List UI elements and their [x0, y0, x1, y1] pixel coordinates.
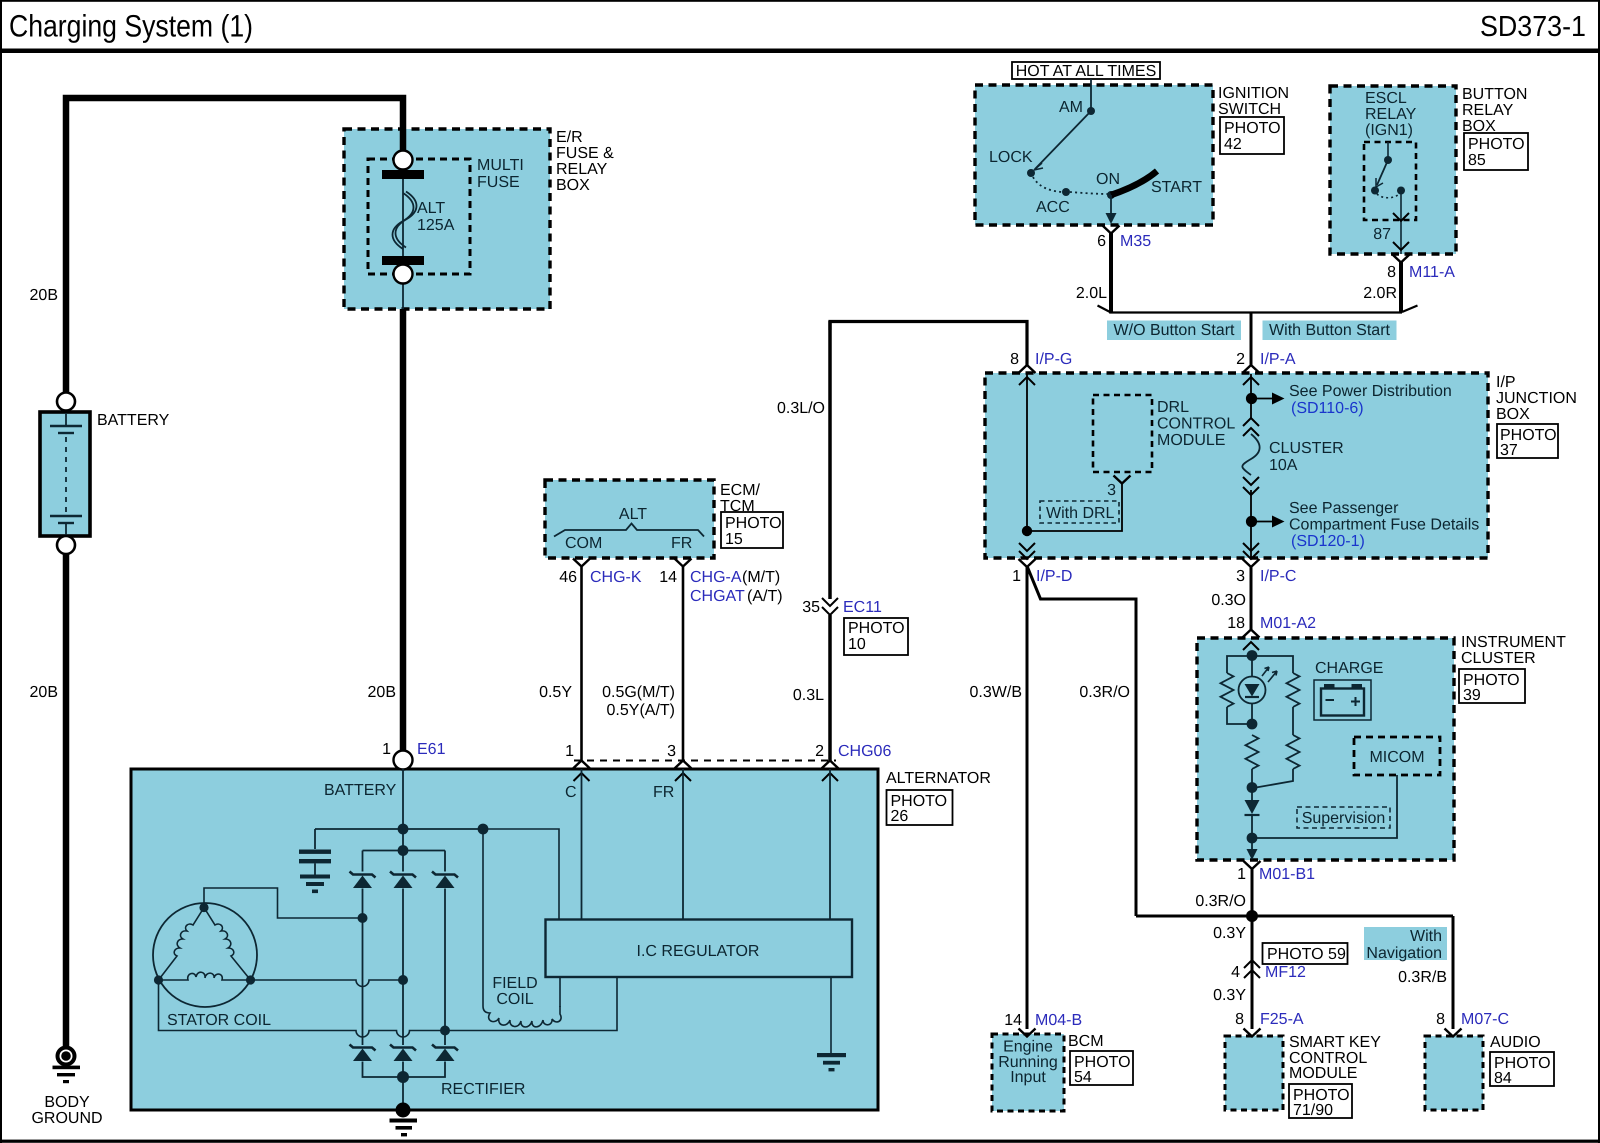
capacitor ground bars [300, 875, 330, 879]
svg-text:PHOTO 59: PHOTO 59 [1267, 946, 1346, 963]
wire M35 2.0L [1109, 233, 1113, 314]
body ground bar3 [63, 1080, 69, 1083]
main ground bars [390, 1119, 418, 1123]
svg-text:3: 3 [1107, 482, 1116, 499]
wire 0.3L/O [830, 322, 1027, 367]
ON output arrowhead [1106, 213, 1117, 224]
photo 37 box [1497, 424, 1558, 458]
photo 39 box [1459, 669, 1525, 703]
svg-text:F25-A: F25-A [1260, 1011, 1304, 1028]
svg-text:20B: 20B [368, 684, 396, 701]
phase C to regulator wire [445, 977, 617, 1031]
svg-text:85: 85 [1468, 152, 1486, 169]
svg-text:BOX: BOX [1496, 406, 1530, 423]
junction dot field [478, 824, 489, 835]
connector FR pin [675, 559, 692, 567]
svg-text:ALT: ALT [619, 506, 647, 523]
wire right to dot3 [1256, 769, 1293, 788]
svg-text:EC11: EC11 [843, 599, 882, 616]
svg-text:MICOM: MICOM [1369, 749, 1424, 766]
svg-text:IGNITION: IGNITION [1218, 85, 1289, 102]
capacitor plate 1 [299, 850, 331, 854]
svg-text:20B: 20B [30, 684, 58, 701]
connector L pin [822, 761, 839, 769]
svg-text:CHARGE: CHARGE [1315, 660, 1383, 677]
LED light arrows [1262, 667, 1269, 676]
svg-text:39: 39 [1463, 687, 1481, 704]
ECM/TCM box [545, 480, 714, 558]
relay contact dot right [1397, 187, 1405, 195]
wire I/P-C to M01-A2 [1250, 566, 1253, 630]
battery dashed center line [65, 437, 67, 512]
svg-text:Charging System (1): Charging System (1) [9, 9, 253, 44]
svg-text:42: 42 [1224, 136, 1242, 153]
svg-text:(M/T): (M/T) [742, 569, 780, 586]
wire I/P-G inside box [1026, 374, 1028, 531]
wire M11-A 2.0R [1399, 261, 1403, 313]
svg-text:I/P-C: I/P-C [1260, 568, 1296, 585]
svg-text:M11-A: M11-A [1409, 264, 1455, 281]
connector EC11 [822, 598, 838, 606]
svg-text:Navigation: Navigation [1366, 945, 1442, 962]
svg-text:ALT: ALT [417, 200, 445, 217]
dotted arc ACC-ON [1070, 192, 1108, 194]
hot at all times box [1012, 62, 1160, 79]
minus sign [1326, 699, 1335, 701]
svg-text:CHG06: CHG06 [838, 743, 891, 760]
svg-text:18: 18 [1227, 615, 1245, 632]
svg-text:BUTTON: BUTTON [1462, 86, 1527, 103]
wire 20B fuse to E61 [400, 309, 407, 752]
junction dot I/P-A top [1246, 393, 1257, 404]
svg-text:PHOTO: PHOTO [1224, 120, 1281, 137]
svg-text:E61: E61 [417, 741, 446, 758]
resistor right lower [1287, 735, 1300, 769]
junction dot rectifier top [398, 845, 409, 856]
svg-text:4: 4 [1231, 964, 1240, 981]
fuse wire thin [402, 152, 404, 274]
junction dot I/P-A bottom [1246, 516, 1257, 527]
junction dot B+ [398, 824, 409, 835]
relay contact dot left [1371, 187, 1379, 195]
L wire below regulator [830, 977, 832, 1053]
body ground ring [58, 1048, 75, 1065]
svg-text:I/P-G: I/P-G [1035, 351, 1072, 368]
fuse wire below circle [402, 283, 404, 309]
band With Button Start [1263, 321, 1397, 341]
multi fuse inner dashed box [368, 159, 470, 274]
capacitor plate 2 [299, 859, 331, 863]
diode upper 3 [432, 872, 458, 889]
svg-text:2.0R: 2.0R [1363, 285, 1397, 302]
svg-text:26: 26 [891, 808, 909, 825]
LED triangle [1245, 684, 1260, 697]
stator delta left coil side [159, 908, 205, 981]
B+ sense wire to regulator [483, 829, 559, 919]
resistor center [1246, 735, 1259, 769]
L wire inside [829, 769, 831, 919]
svg-text:I.C REGULATOR: I.C REGULATOR [637, 943, 760, 960]
page top border [0, 0, 1600, 2]
svg-text:RECTIFIER: RECTIFIER [441, 1081, 525, 1098]
capacitor branch wire [314, 829, 316, 849]
page bottom border [0, 1140, 1600, 1143]
svg-text:14: 14 [1004, 1012, 1022, 1029]
body ground bar1 [53, 1066, 81, 1070]
svg-text:0.5Y: 0.5Y [539, 684, 572, 701]
START wiper thick curve [1111, 171, 1157, 195]
svg-text:87: 87 [1373, 226, 1391, 243]
charge battery body [1321, 689, 1364, 716]
DRL control module box [1093, 395, 1152, 472]
band W/O Button Start [1107, 321, 1241, 341]
junction dot rectifier bottom [397, 1071, 409, 1083]
svg-text:FIELD: FIELD [492, 975, 537, 992]
rectifier column wires [363, 889, 446, 1046]
svg-text:2: 2 [1236, 351, 1245, 368]
svg-text:C: C [565, 784, 577, 801]
diode upper 1 [350, 872, 376, 889]
rectifier bottom bus [363, 1062, 446, 1111]
svg-text:35: 35 [802, 599, 820, 616]
svg-text:71/90: 71/90 [1293, 1102, 1333, 1119]
connector M01-B1 [1244, 861, 1261, 869]
svg-text:8: 8 [1436, 1011, 1445, 1028]
header rule [0, 49, 1600, 54]
svg-text:SD373-1: SD373-1 [1480, 11, 1586, 43]
connector C pin [573, 761, 590, 769]
wire CHG06 0.3L upper [828, 321, 832, 599]
wire center to dot3 [1251, 769, 1253, 788]
svg-text:8: 8 [1235, 1011, 1244, 1028]
battery center tick top [65, 413, 67, 426]
battery cell top long plate [50, 425, 82, 427]
stator phase C wire [159, 980, 446, 1037]
connector MF12 [1244, 960, 1260, 968]
svg-text:0.3L: 0.3L [793, 687, 824, 704]
wire 0.3R/O horizontal bus [1136, 915, 1453, 918]
FR wire inside [682, 769, 684, 919]
photo 26 box [887, 790, 953, 825]
svg-text:(SD120-1): (SD120-1) [1291, 533, 1365, 550]
svg-text:ECM/: ECM/ [720, 482, 761, 499]
wire to MICOM [1252, 775, 1397, 838]
svg-text:0.3L/O: 0.3L/O [777, 400, 825, 417]
svg-text:E/R: E/R [556, 129, 583, 146]
svg-text:(A/T): (A/T) [747, 588, 783, 605]
junction dot phase A [358, 913, 368, 923]
stator phase B wire [251, 980, 404, 987]
diode lower 1 [350, 1045, 376, 1062]
ECM brace [554, 524, 704, 537]
wire CHG06 0.3L lower [828, 615, 832, 761]
relay wiper [1377, 160, 1388, 185]
connector I/P-D [1019, 543, 1035, 551]
battery cell bottom short plate [58, 522, 74, 524]
diode lower 2 [390, 1045, 416, 1062]
svg-text:AUDIO: AUDIO [1490, 1034, 1541, 1051]
svg-text:INSTRUMENT: INSTRUMENT [1461, 634, 1566, 651]
wire FR 0.5G [682, 567, 685, 761]
svg-text:8: 8 [1387, 264, 1396, 281]
switch wiper AM-LOCK [1035, 111, 1091, 169]
svg-text:Input: Input [1010, 1069, 1046, 1086]
stator delta bottom coil side [159, 972, 251, 980]
ACC contact dot [1062, 188, 1070, 196]
LOCK contact dot [1027, 169, 1035, 177]
svg-text:1: 1 [1012, 568, 1021, 585]
svg-text:LOCK: LOCK [989, 149, 1033, 166]
lamp left branch wire [1227, 656, 1252, 673]
junction dot diode bottom [1247, 833, 1258, 844]
connector FR pin [675, 761, 692, 769]
svg-text:PHOTO: PHOTO [1468, 136, 1525, 153]
junction dot I/P-G [1022, 526, 1032, 536]
svg-text:FR: FR [653, 784, 674, 801]
diode lower 3 [432, 1045, 458, 1062]
plus sign [1351, 697, 1360, 706]
connector M35 [1103, 226, 1120, 234]
resistor right upper [1287, 673, 1300, 707]
svg-text:M01-B1: M01-B1 [1259, 866, 1315, 883]
svg-text:CHG-K: CHG-K [590, 569, 642, 586]
photo 54 box [1070, 1051, 1133, 1085]
battery cell top short plate [58, 432, 74, 434]
dashed connector line CHG06 [574, 760, 836, 762]
cluster fuse S-curve [1242, 434, 1259, 475]
diode upper 2 [390, 872, 416, 889]
svg-text:ACC: ACC [1036, 199, 1070, 216]
page right border [1598, 0, 1600, 1143]
svg-text:With Button Start: With Button Start [1269, 322, 1390, 339]
wire splice tick right [1402, 306, 1418, 313]
wire lamp out [1251, 838, 1253, 850]
ON contact dot [1107, 191, 1115, 199]
relay wiper arrowhead [1376, 178, 1383, 187]
stator vertex dots [199, 903, 208, 912]
photo 42 box [1220, 117, 1284, 154]
svg-text:I/P: I/P [1496, 374, 1516, 391]
with DRL box [1040, 501, 1119, 523]
connector I/P-G [1019, 365, 1036, 373]
svg-text:AM: AM [1059, 99, 1083, 116]
svg-text:(SD110-6): (SD110-6) [1291, 400, 1364, 417]
svg-text:3: 3 [1236, 568, 1245, 585]
wire I/P-A drop [1250, 313, 1253, 367]
svg-text:0.3R/B: 0.3R/B [1398, 969, 1447, 986]
arrow see power distribution [1251, 398, 1272, 400]
connector M04-B [1019, 1029, 1036, 1037]
svg-text:MF12: MF12 [1265, 964, 1306, 981]
svg-text:FUSE: FUSE [477, 174, 520, 191]
diode supervision [1251, 788, 1253, 801]
button relay box (ESCL) [1330, 86, 1456, 254]
LED cathode bar [1245, 696, 1259, 698]
alternator box [131, 769, 878, 1110]
photo 71/90 box [1289, 1084, 1352, 1118]
ON output wire [1110, 195, 1112, 214]
svg-text:PHOTO: PHOTO [848, 620, 905, 637]
svg-text:ESCL: ESCL [1365, 90, 1407, 107]
MICOM box [1354, 737, 1440, 775]
svg-text:FUSE &: FUSE & [556, 145, 614, 162]
svg-text:I/P-D: I/P-D [1036, 568, 1072, 585]
svg-text:I/P-A: I/P-A [1260, 351, 1296, 368]
main ground dot [396, 1103, 411, 1118]
svg-text:0.3Y: 0.3Y [1213, 987, 1246, 1004]
svg-text:START: START [1151, 179, 1202, 196]
svg-text:RELAY: RELAY [1365, 106, 1417, 123]
BCM box [992, 1034, 1064, 1111]
svg-text:2: 2 [815, 743, 824, 760]
C wire inside [581, 769, 583, 919]
wiper arrowhead [1034, 163, 1043, 170]
svg-text:1: 1 [1237, 866, 1246, 883]
wire I/P-A inside box [1250, 374, 1252, 418]
charge battery icon outer [1314, 680, 1371, 720]
junction dot phase C [440, 1026, 450, 1036]
svg-text:0.5Y(A/T): 0.5Y(A/T) [607, 702, 675, 719]
svg-text:Engine: Engine [1003, 1039, 1053, 1056]
svg-text:14: 14 [659, 569, 677, 586]
svg-text:FR: FR [671, 535, 692, 552]
ignition switch box [975, 85, 1213, 225]
svg-text:DRL: DRL [1157, 399, 1189, 416]
wire bus y829 [315, 828, 483, 830]
svg-text:W/O Button Start: W/O Button Start [1114, 322, 1235, 339]
stator delta right coil side [204, 908, 251, 981]
svg-text:15: 15 [725, 531, 743, 548]
page left border [0, 0, 2, 1143]
svg-text:JUNCTION: JUNCTION [1496, 390, 1577, 407]
svg-text:M07-C: M07-C [1461, 1011, 1509, 1028]
body ground bar2 [57, 1073, 75, 1076]
body ground dot [61, 1051, 71, 1061]
svg-text:84: 84 [1494, 1070, 1512, 1087]
svg-text:M04-B: M04-B [1035, 1012, 1082, 1029]
wire cluster fuse to I/P-C [1250, 490, 1252, 558]
battery center tick bottom [65, 523, 67, 535]
wire I/P-D 0.3W/B [1026, 566, 1029, 1029]
svg-text:SWITCH: SWITCH [1218, 101, 1281, 118]
fuse bar top [382, 170, 424, 179]
svg-text:46: 46 [559, 569, 577, 586]
svg-text:37: 37 [1500, 442, 1518, 459]
svg-text:BODY: BODY [44, 1094, 90, 1111]
svg-text:BOX: BOX [556, 177, 590, 194]
svg-text:0.3W/B: 0.3W/B [970, 684, 1022, 701]
svg-text:RELAY: RELAY [556, 161, 608, 178]
svg-text:Supervision: Supervision [1302, 810, 1386, 827]
IC regulator box [546, 920, 853, 978]
svg-text:BATTERY: BATTERY [324, 782, 397, 799]
svg-text:ALTERNATOR: ALTERNATOR [886, 770, 991, 787]
photo 85 box [1464, 133, 1528, 170]
wire 20B battery to body ground [63, 553, 70, 1046]
svg-text:HOT AT ALL TIMES: HOT AT ALL TIMES [1016, 63, 1157, 80]
fuse element S-curve [393, 193, 414, 249]
svg-text:ON: ON [1096, 171, 1120, 188]
capacitor ground wire [314, 863, 316, 874]
svg-text:CLUSTER: CLUSTER [1269, 440, 1344, 457]
lamp left branch wire lower [1227, 707, 1252, 724]
resistor left [1221, 673, 1234, 707]
svg-text:With: With [1410, 928, 1442, 945]
connector I/P-C [1243, 543, 1259, 551]
wire I/P-D to 0.3R/O riser [1027, 566, 1136, 916]
wire 0.3Y to F25-A [1251, 916, 1254, 1029]
connector E61 circle [394, 751, 413, 770]
junction dot lamp mid [1247, 719, 1258, 730]
field coil loops [483, 1006, 561, 1027]
svg-text:CONTROL: CONTROL [1157, 416, 1235, 433]
svg-text:PHOTO: PHOTO [725, 515, 782, 532]
svg-text:125A: 125A [417, 217, 455, 234]
LED wire top [1251, 656, 1253, 677]
svg-text:0.3O: 0.3O [1211, 592, 1246, 609]
charge battery terminals [1324, 684, 1335, 689]
svg-text:1: 1 [565, 743, 574, 760]
battery terminal circle top [57, 393, 75, 411]
svg-text:SMART KEY: SMART KEY [1289, 1034, 1381, 1051]
battery body [40, 412, 90, 536]
wire 0.3R/B to M07-C [1452, 916, 1455, 1029]
audio box [1425, 1036, 1483, 1110]
fuse terminal circle top [394, 151, 413, 170]
battery terminal circle bottom [57, 536, 75, 554]
svg-text:BATTERY: BATTERY [97, 412, 170, 429]
svg-text:0.3R/O: 0.3R/O [1195, 893, 1246, 910]
svg-text:20B: 20B [30, 287, 58, 304]
svg-text:See Power Distribution: See Power Distribution [1289, 383, 1452, 400]
svg-text:STATOR COIL: STATOR COIL [167, 1012, 271, 1029]
relay output chevron 1 [1393, 213, 1409, 221]
svg-text:See Passenger: See Passenger [1289, 500, 1399, 517]
connector F25-A [1244, 1029, 1261, 1037]
smart key control module box [1225, 1036, 1283, 1110]
photo 84 box [1490, 1052, 1554, 1086]
svg-text:BCM: BCM [1068, 1033, 1104, 1050]
svg-text:Compartment Fuse Details: Compartment Fuse Details [1289, 517, 1479, 534]
cluster fuse chevrons top [1243, 418, 1259, 426]
svg-text:1: 1 [382, 741, 391, 758]
svg-text:6: 6 [1097, 233, 1106, 250]
svg-text:M35: M35 [1120, 233, 1151, 250]
svg-text:CLUSTER: CLUSTER [1461, 650, 1536, 667]
rectifier top bus [363, 829, 446, 872]
svg-text:M01-A2: M01-A2 [1260, 615, 1316, 632]
svg-text:0.5G(M/T): 0.5G(M/T) [602, 684, 675, 701]
instrument cluster box [1197, 638, 1454, 860]
relay dotted arc [1377, 194, 1399, 198]
svg-text:GROUND: GROUND [31, 1110, 102, 1127]
svg-text:MODULE: MODULE [1157, 432, 1225, 449]
junction dot lamp low [1247, 782, 1258, 793]
I/P junction box [985, 373, 1488, 558]
photo 10 box [844, 618, 908, 655]
wire with-DRL to junction [1027, 484, 1122, 531]
L ground bars [817, 1053, 846, 1057]
wire into ignition box [1090, 79, 1092, 111]
lamp right branch wire [1252, 656, 1293, 673]
connector COM pin [573, 559, 590, 567]
svg-text:0.3Y: 0.3Y [1213, 925, 1246, 942]
svg-text:RELAY: RELAY [1462, 102, 1514, 119]
wire 20B battery top loop [66, 98, 403, 392]
connector M07-C [1445, 1029, 1462, 1037]
svg-text:COM: COM [565, 535, 602, 552]
svg-text:54: 54 [1074, 1069, 1092, 1086]
